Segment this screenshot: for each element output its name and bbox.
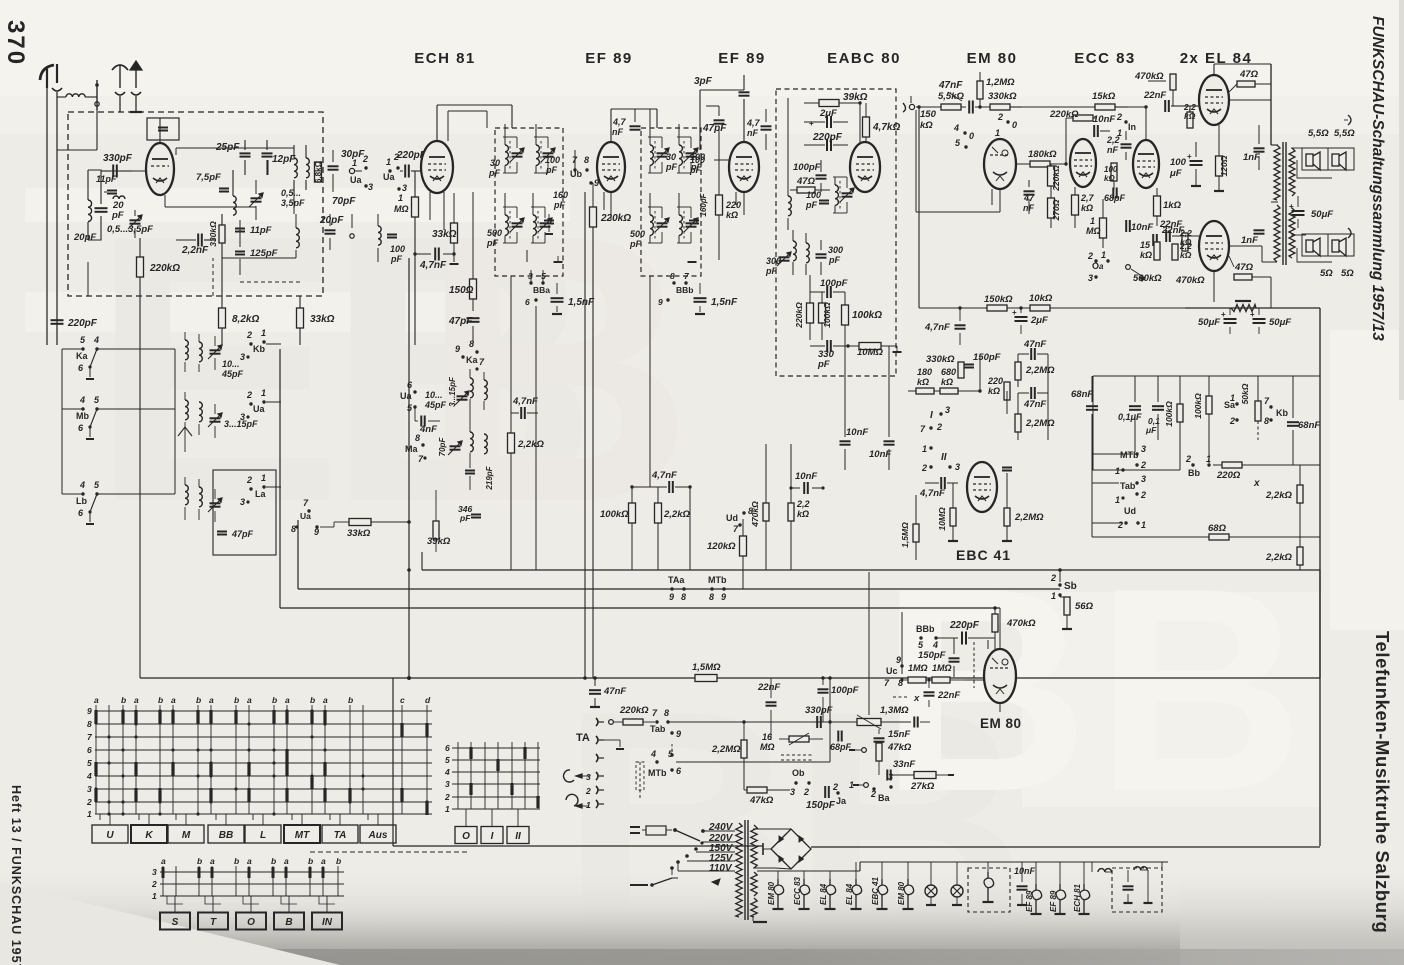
wire EF89-2 cathode [743,192,745,215]
svg-text:b: b [336,856,341,866]
svg-text:50kΩ: 50kΩ [1240,383,1250,404]
wire bus corner verticals [297,520,299,589]
svg-text:Ua: Ua [300,511,311,521]
cap 220pF coupling [404,165,406,178]
svg-text:150Ω: 150Ω [449,285,474,296]
resistor 270Ohm rot [1048,198,1055,218]
resistor 1MOhm [412,197,419,217]
svg-text:2: 2 [803,787,809,797]
svg-text:b: b [271,856,276,866]
svg-text:Tab: Tab [650,724,666,734]
wire 771 to bus [770,677,772,679]
svg-text:2: 2 [444,792,450,802]
wire contacts to bus [266,343,281,345]
svg-text:a: a [210,856,215,866]
svg-text:1: 1 [1101,250,1106,260]
wire EM80 bottom leads [999,703,1001,712]
cap 15nF [874,737,885,739]
coupling coil antenna [66,94,85,97]
wire osc internal [239,220,241,247]
resistor 150kOhm supply [987,305,1007,311]
svg-text:1MΩ: 1MΩ [932,663,952,673]
wire B+ rail right [1213,271,1215,302]
resistor 5,5kOhm [941,104,961,110]
oscillator coils [294,158,297,178]
svg-text:6: 6 [445,743,450,753]
cap 100pF drive [818,688,829,690]
svg-text:pF: pF [828,255,840,265]
svg-text:10...: 10... [425,390,443,400]
resistor 100kOhm tone2 rot [1206,396,1212,414]
trimmer K band [210,349,221,351]
svg-text:2,2kΩ: 2,2kΩ [663,509,690,520]
output transformer primary [1274,145,1280,200]
svg-text:160pF: 160pF [699,192,708,216]
coil osc K [470,378,473,398]
svg-text:47nF: 47nF [938,80,963,91]
svg-text:1nF: 1nF [1241,235,1258,246]
svg-text:8: 8 [415,433,420,443]
terminal pin [96,80,98,110]
resistor 1kOhm [1154,196,1161,216]
svg-text:4,7: 4,7 [746,118,761,128]
resistor 10MOhm mid [859,343,881,350]
svg-text:8: 8 [469,339,474,349]
svg-text:1,5MΩ: 1,5MΩ [900,522,910,548]
svg-text:pF: pF [545,165,557,175]
wire bus y570 [422,569,1320,571]
svg-text:2,2MΩ: 2,2MΩ [1025,418,1055,429]
svg-text:MT: MT [295,830,310,841]
svg-text:2,2kΩ: 2,2kΩ [1265,490,1292,501]
svg-text:nF: nF [612,127,623,137]
svg-text:11pF: 11pF [96,174,117,184]
wire EF89-1 cathode [610,192,612,220]
cap 10nF det b [884,440,895,442]
svg-text:3: 3 [240,497,245,507]
svg-text:2: 2 [1140,490,1146,500]
cap 150pF EBC [964,364,974,366]
svg-text:2: 2 [1116,112,1122,122]
terminal circle TA [609,720,614,725]
IF unit inside EABC [835,185,838,205]
svg-text:150pF: 150pF [918,650,946,661]
svg-text:150pF: 150pF [806,800,836,811]
heater EL84 a [826,879,836,895]
wire MTb row [676,761,830,763]
svg-text:5,5Ω: 5,5Ω [1308,128,1329,139]
svg-text:MΩ: MΩ [1086,226,1101,236]
wire Uc to EM80 bottom [965,679,984,681]
wire antenna 1 down [46,68,48,88]
resistor 2,2kOhm det [655,503,662,523]
svg-text:8: 8 [898,678,903,688]
svg-text:3: 3 [368,182,373,192]
svg-text:5Ω: 5Ω [1341,268,1354,279]
tube ECC83 a [1070,139,1096,187]
IF1 secondary 2 [533,215,536,235]
wire right rail x1320 low [1319,570,1321,678]
tube EF89 second [729,142,759,192]
wire antenna link [96,110,98,150]
svg-text:120Ω: 120Ω [1219,155,1229,176]
svg-text:1kΩ: 1kΩ [1163,200,1182,211]
cap 300pF right [816,253,827,255]
svg-text:500: 500 [487,228,502,238]
resistor 2,2kOhm at 511 [508,433,515,453]
resistor 47Ohm screen upper [1237,81,1255,87]
cap 47pF cathode [467,317,480,319]
svg-text:a: a [323,695,328,705]
svg-text:kΩ: kΩ [1180,250,1192,260]
dashed link TA [639,762,641,800]
svg-text:O: O [247,917,255,928]
wire tone bottom rail [1092,469,1180,471]
resistor 68Ohm [1209,534,1229,540]
svg-text:9: 9 [455,344,460,354]
svg-text:3: 3 [445,779,450,789]
svg-text:9: 9 [721,592,726,602]
wire ECH81 cathode down [429,192,431,220]
transformer primary winding [736,823,742,917]
svg-text:2: 2 [393,152,399,162]
STOBIN feet [167,896,183,904]
svg-text:11pF: 11pF [250,225,272,236]
jack MT arrows [596,772,598,780]
dipole antenna symbol [112,65,128,70]
elco 100uF [1190,160,1203,162]
resistor 2,2MOhm EBC3 [1004,508,1010,526]
svg-text:2: 2 [870,789,876,799]
wires EABC verticals [787,98,789,188]
speaker pair upper [1302,148,1328,170]
svg-text:IN: IN [322,917,333,928]
svg-text:Aus: Aus [368,830,388,841]
svg-text:2: 2 [1117,520,1123,530]
resistor 6,8kOhm rotated [315,162,322,182]
elco 50uF left [1224,318,1237,320]
svg-text:Tab: Tab [1120,481,1136,491]
svg-text:120kΩ: 120kΩ [707,541,736,552]
svg-text:d: d [425,695,431,705]
svg-text:20pF: 20pF [73,232,96,243]
svg-text:4: 4 [93,335,99,345]
heater EF89 b [1056,884,1066,900]
svg-text:22nF: 22nF [1159,219,1182,230]
svg-text:MTb: MTb [708,575,727,585]
svg-text:a: a [171,695,176,705]
svg-text:2μF: 2μF [819,108,837,119]
svg-text:50μF: 50μF [1269,317,1291,328]
resistor 330kOhm EM [990,104,1010,110]
svg-text:ECH 81: ECH 81 [1073,883,1082,912]
svg-text:4: 4 [650,749,656,759]
svg-text:1: 1 [386,157,391,167]
svg-text:a: a [247,856,252,866]
resistor 56Ohm [1064,597,1070,615]
cap 150pF Ja [824,786,826,798]
cap 47pF L [217,531,227,533]
svg-text:x: x [913,693,920,704]
resistor 2,2MOhm EBC1 [1015,362,1021,380]
resistor 47kOhm TA [747,787,767,793]
svg-text:8: 8 [709,592,714,602]
wire vertical x845 low [844,470,846,570]
transformer ground [752,917,754,921]
svg-text:4,7nF: 4,7nF [919,488,945,499]
svg-text:Ma: Ma [405,444,418,454]
svg-text:2,2MΩ: 2,2MΩ [1014,512,1044,523]
svg-text:0,5...: 0,5... [281,188,301,198]
svg-text:pF: pF [689,165,701,175]
svg-text:1,2MΩ: 1,2MΩ [986,77,1015,88]
svg-text:2,2MΩ: 2,2MΩ [711,744,741,755]
svg-text:EM 80: EM 80 [967,50,1018,67]
STOBIN contact bars [162,867,165,878]
cap 47pF [714,119,725,121]
svg-text:1: 1 [87,809,92,819]
resistor 330kOhm EBC [958,362,964,378]
svg-text:2: 2 [1140,460,1146,470]
wire vertical to pot 1,3M [868,572,870,715]
resistor 220kOhm EF89-2 [716,195,723,215]
cap 160pF [544,220,554,222]
svg-text:1: 1 [1141,520,1146,530]
svg-text:4,7nF: 4,7nF [419,260,447,271]
svg-text:220kΩ: 220kΩ [1051,165,1061,192]
svg-text:Bb: Bb [1188,468,1200,478]
svg-text:47pF: 47pF [231,529,254,539]
coil osc M2 [484,434,487,454]
resistor 2,2kOhm ECC [1182,233,1188,251]
wire band switch column [62,348,83,350]
svg-text:47nF: 47nF [1023,399,1046,410]
wire between can2 and EF89-2 [699,90,701,150]
svg-text:70pF: 70pF [332,196,356,207]
switch matrix junction dots [94,787,97,790]
svg-text:Ua: Ua [253,404,265,414]
svg-text:+: + [809,119,814,128]
svg-text:1: 1 [152,891,157,901]
trimmer osc K [457,395,468,397]
wire transformer feeds [1271,144,1278,146]
svg-text:1,3MΩ: 1,3MΩ [880,705,909,716]
dashed pot link [781,754,814,756]
svg-text:47Ω: 47Ω [796,176,816,187]
svg-text:0,5...3,5pF: 0,5...3,5pF [107,224,153,235]
svg-text:10MΩ: 10MΩ [857,347,883,358]
heater EM80 b [904,879,914,895]
wire link Ka rows [174,349,176,494]
cap 2uF [826,116,828,128]
resistor 120kOhm [740,536,747,556]
cap 0,1uF tone b [1152,405,1164,407]
resistor 470kOhm EM bottom [992,614,998,632]
svg-text:pF: pF [817,359,830,370]
dial lamp 2 [951,885,963,897]
hum resistor zigzag [1235,300,1251,302]
mains plug [630,826,640,828]
svg-text:110V: 110V [709,863,733,874]
wires IF2 [649,124,651,137]
svg-text:b: b [310,695,315,705]
svg-text:2,7: 2,7 [1080,193,1095,203]
cap 20pF mid [325,229,336,231]
wire EABC out [895,307,897,309]
cap 22nF top [1164,100,1166,112]
svg-text:pF: pF [488,168,500,178]
svg-text:a: a [94,695,99,705]
cap EBC anode [1002,467,1012,469]
svg-text:EBC 41: EBC 41 [956,547,1011,563]
svg-text:56Ω: 56Ω [1075,601,1094,612]
svg-text:Uc: Uc [886,666,898,676]
wire left verticals to bus [42,345,44,570]
cap 47nF EBC top [1030,348,1032,360]
svg-text:3: 3 [955,462,960,472]
IF1 primary resonant circuit [505,145,508,165]
elco 2uF supply [1015,316,1028,318]
cap 330pF mid [826,340,828,352]
output transformer core [1282,142,1284,265]
resistor 1MOhm a [908,677,926,683]
ground IF2 [688,261,697,263]
svg-text:150pF: 150pF [973,352,1001,363]
svg-text:+: + [1187,152,1192,161]
svg-text:1: 1 [1115,495,1120,505]
cap 22nF low [1152,234,1154,246]
svg-text:0: 0 [1012,120,1017,130]
svg-text:kΩ: kΩ [920,120,933,131]
svg-text:470kΩ: 470kΩ [1134,71,1164,82]
svg-text:33kΩ: 33kΩ [347,528,371,539]
svg-text:EM 80: EM 80 [980,716,1022,731]
svg-text:FUNKSCHAU-Schaltungssammlung 1: FUNKSCHAU-Schaltungssammlung 1957/13 [1369,16,1386,341]
svg-text:3: 3 [586,772,591,782]
svg-text:B: B [285,917,292,928]
resistor 10MOhm EBC rot [950,508,956,526]
svg-text:4,7nF: 4,7nF [512,396,538,407]
svg-text:7,5pF: 7,5pF [196,172,221,183]
svg-text:ECC 83: ECC 83 [793,876,802,905]
svg-text:M: M [182,830,191,841]
resistor 2,2kOhm EL grid [1187,112,1193,128]
cap 100 pF right [387,234,397,236]
bridge left terminal [763,848,771,850]
cap 10nF ECC [1093,125,1095,137]
cap 220pF [826,139,828,151]
svg-text:9: 9 [669,592,674,602]
coil with switch right [378,226,381,245]
svg-text:EF 89: EF 89 [585,50,633,67]
svg-text:kΩ: kΩ [797,509,809,519]
svg-text:Heft 13 / FUNKSCHAU 1957: Heft 13 / FUNKSCHAU 1957 [9,785,23,965]
svg-text:50μF: 50μF [1311,209,1333,220]
wire vertical x585 [584,192,586,678]
wire vertical x473 [472,345,474,589]
heater EF89 a [1032,884,1042,900]
svg-text:1: 1 [1051,591,1056,601]
IF1 secondary circuit [505,215,508,235]
svg-text:300: 300 [828,245,843,255]
resistor 100kOhm right [842,305,849,325]
cap 11pF osc [235,228,245,230]
coil set M band [185,400,188,420]
svg-text:Ob: Ob [792,768,805,778]
svg-text:45pF: 45pF [424,400,447,410]
resistor 47Ohm [797,187,815,193]
svg-text:50μF: 50μF [1198,317,1220,328]
mains switch [673,828,677,832]
resistor 180kOhm [1030,161,1050,167]
svg-text:330pF: 330pF [805,705,833,716]
transformer heater winding 1 [751,872,757,896]
wire speakers upper [1291,147,1306,149]
tube ECH81 [421,141,453,193]
svg-text:4: 4 [79,395,85,405]
UKW tube neutralization box [147,118,179,140]
cap 30pF [328,165,339,167]
svg-text:10nF: 10nF [795,471,817,482]
svg-text:b: b [308,856,313,866]
output terminal Ua [349,168,354,173]
resistor 10kOhm supply [1030,305,1050,311]
svg-text:2,2nF: 2,2nF [181,245,209,256]
svg-text:8: 8 [670,271,675,281]
IF2 primary 2 [679,145,682,165]
svg-text:100: 100 [690,155,705,165]
svg-text:1: 1 [1206,454,1211,464]
cap osc small [465,470,475,472]
svg-text:2: 2 [246,475,252,485]
svg-text:100kΩ: 100kΩ [1193,393,1203,419]
svg-text:6: 6 [525,297,530,307]
resistor 39kOhm osc [433,521,439,539]
svg-text:EF 89: EF 89 [1025,890,1034,912]
svg-text:45pF: 45pF [221,369,244,379]
svg-text:pF: pF [390,254,402,264]
terminal drive [862,748,867,753]
svg-text:pF: pF [459,513,471,523]
resistor 330kOhm [219,225,225,243]
svg-text:15: 15 [1140,240,1151,250]
resistor 15kOhm low [1154,242,1160,260]
wire vertical x830 [829,678,831,762]
cap 125pF [235,251,245,253]
svg-text:47pF: 47pF [702,123,727,134]
tube EL84 upper [1199,75,1229,125]
svg-text:33kΩ: 33kΩ [432,229,457,240]
svg-text:MTb: MTb [648,768,667,778]
wire AM top rail [176,147,294,149]
svg-text:a: a [209,695,214,705]
svg-text:100: 100 [1104,165,1118,174]
svg-text:a: a [1099,262,1104,271]
svg-text:2: 2 [246,390,252,400]
speaker terminal lower [1348,228,1351,238]
cap 4,7nF EBC grid [940,477,942,489]
mains switch lower [630,884,648,886]
svg-text:1,5nF: 1,5nF [568,297,595,308]
heater ECH81 [1080,884,1090,900]
svg-text:3,5pF: 3,5pF [281,198,305,208]
wire ECH81 anode top [436,105,438,141]
tube EM80 top [984,139,1016,189]
svg-text:b: b [158,695,163,705]
cap 68pF [1112,188,1114,199]
svg-text:4: 4 [932,640,938,650]
antenna plug 2 [52,88,62,91]
